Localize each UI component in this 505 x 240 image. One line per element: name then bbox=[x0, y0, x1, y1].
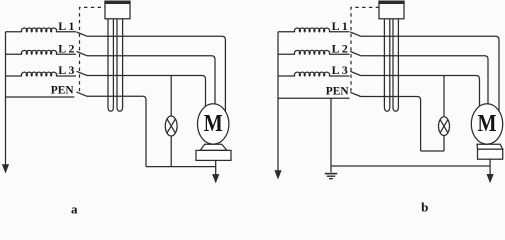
wire: lamp return lead (fig a) bbox=[170, 136, 172, 167]
inductor on L2 (fig a) bbox=[21, 50, 56, 54]
wire: L3 feeder to motor (fig b) bbox=[361, 76, 480, 108]
switch blade L3 (fig a) bbox=[77, 71, 88, 75]
dashed switch linkage (fig b) bbox=[351, 7, 379, 91]
motor M (fig a) bbox=[200, 144, 227, 150]
wire: lamp bottom lead (fig b) bbox=[443, 136, 445, 151]
fuse tube right (fig a) bbox=[117, 19, 123, 111]
motor M (fig b) bbox=[477, 144, 503, 149]
wire: phase L1 (fig b) bbox=[278, 31, 295, 33]
svg-text:PEN: PEN bbox=[326, 86, 350, 98]
arrow: supply continues (fig b) bbox=[274, 170, 281, 179]
wire: phase L1 (fig a) bbox=[6, 31, 23, 33]
earth electrode symbol (fig b) bbox=[325, 173, 337, 175]
wire: bottom PEN link (fig a) bbox=[146, 166, 216, 168]
switch blade L1 (fig a) bbox=[77, 32, 88, 36]
wire+arrow: PE continues below motor (fig b) bbox=[489, 159, 491, 175]
inductor on L1 (fig a) bbox=[21, 28, 56, 32]
wire: phase L2 (fig b) bbox=[278, 53, 295, 55]
lamp (fig a) bbox=[165, 116, 177, 136]
wire: lamp feeder tapped from L3 (fig b) bbox=[443, 76, 445, 117]
wire: lamp return bottom (fig b) bbox=[421, 150, 444, 152]
wire: L1 feeder to motor (fig b) bbox=[361, 36, 499, 111]
motor terminal box (fig b) bbox=[478, 149, 503, 159]
dashed switch linkage (fig a) bbox=[80, 7, 106, 91]
wire+arrow: PEN continues below motor (fig a) bbox=[215, 160, 217, 175]
arrow: supply continues (fig a) bbox=[2, 164, 9, 173]
svg-text:M: M bbox=[204, 111, 223, 137]
inductor on L1 (fig b) bbox=[294, 28, 329, 32]
wire: L2 feeder to motor (fig a) bbox=[87, 56, 215, 105]
fuse tube left (fig b) bbox=[384, 19, 389, 111]
wire: bottom protective link (fig b) bbox=[331, 165, 490, 167]
wire: phase L3 (fig b) bbox=[278, 75, 295, 77]
fuse tube left (fig a) bbox=[108, 19, 113, 111]
switch enclosure box (fig b) bbox=[379, 1, 404, 19]
wire: supply bus (fig b) bbox=[277, 32, 279, 172]
svg-text:M: M bbox=[478, 111, 497, 137]
wire: PEN earthing drop (fig b) bbox=[330, 98, 332, 172]
lamp (fig b) bbox=[439, 117, 450, 136]
wire: supply bus (fig a) bbox=[5, 32, 7, 166]
svg-text:L 1: L 1 bbox=[58, 19, 74, 33]
wire: phase L2 (fig a) bbox=[6, 53, 23, 55]
inductor on L3 (fig b) bbox=[294, 72, 329, 76]
switch blade PEN (fig a) bbox=[77, 92, 88, 96]
svg-text:L 1: L 1 bbox=[332, 19, 348, 33]
svg-text:L 2: L 2 bbox=[332, 41, 348, 55]
wire: L3 feeder to motor (fig a) bbox=[87, 76, 206, 108]
motor terminal box (fig a) bbox=[196, 150, 231, 160]
wire: PEN conductor (fig a) bbox=[6, 96, 75, 98]
wire: phase L3 (fig a) bbox=[6, 75, 23, 77]
switch blade L2 (fig a) bbox=[77, 52, 88, 56]
switch enclosure box (fig a) bbox=[105, 1, 130, 19]
svg-text:PEN: PEN bbox=[51, 84, 75, 96]
svg-text:L 2: L 2 bbox=[58, 41, 74, 55]
svg-text:b: b bbox=[421, 200, 428, 215]
wire: lamp feeder tapped from L3 (fig a) bbox=[170, 76, 172, 117]
wire: L2 feeder to motor (fig b) bbox=[361, 56, 488, 105]
wire: L1 feeder to motor (fig a) bbox=[87, 36, 225, 111]
svg-text:L 3: L 3 bbox=[332, 63, 348, 77]
inductor on L3 (fig a) bbox=[21, 72, 56, 76]
wire: PEN to lamp return (fig b) bbox=[361, 97, 421, 152]
svg-text:L 3: L 3 bbox=[58, 63, 74, 77]
fuse tube right (fig b) bbox=[393, 19, 398, 111]
wire: PEN conductor (fig b) bbox=[278, 97, 350, 99]
switch blade L1 (fig b) bbox=[350, 32, 360, 36]
wire: PEN drop to loads (fig a) bbox=[87, 96, 146, 166]
svg-text:a: a bbox=[71, 202, 78, 216]
switch blade PEN (fig b) bbox=[350, 92, 360, 96]
inductor on L2 (fig b) bbox=[294, 50, 329, 54]
switch blade L2 (fig b) bbox=[350, 52, 360, 56]
switch blade L3 (fig b) bbox=[350, 71, 360, 75]
